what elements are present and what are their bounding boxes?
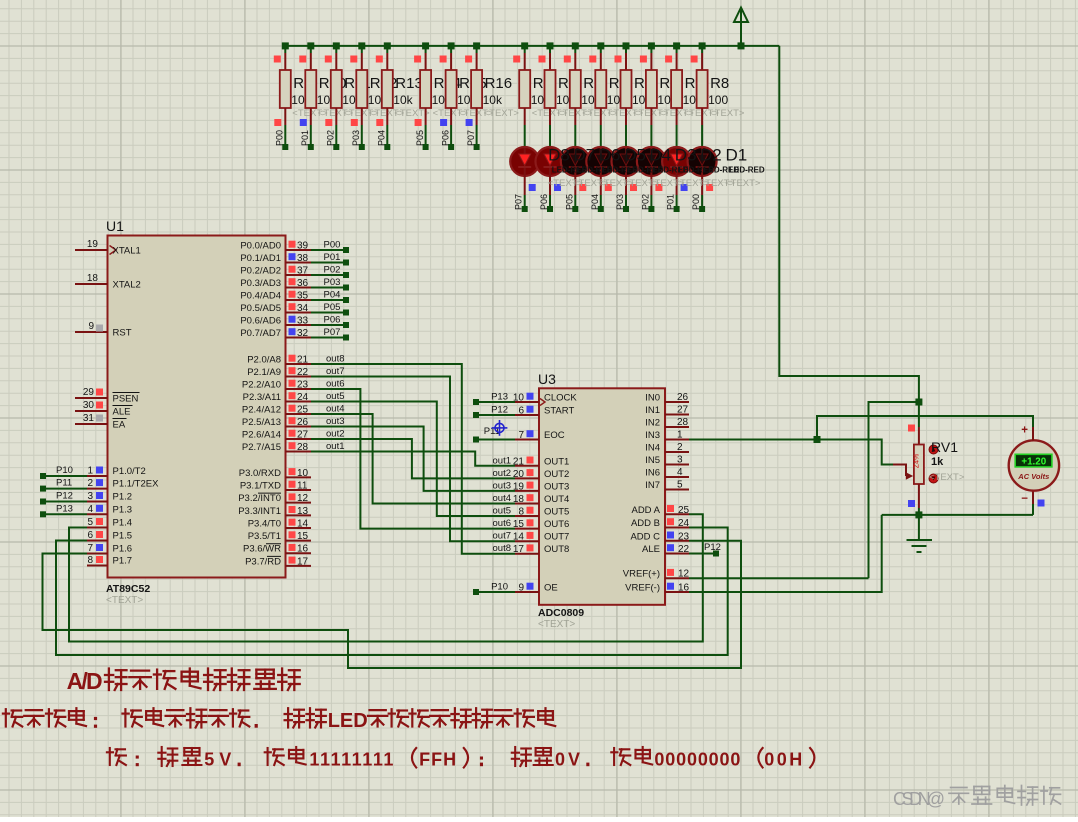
svg-text:24: 24 (297, 392, 309, 403)
svg-text:out8: out8 (493, 543, 512, 554)
resistor R2 100 (539, 46, 593, 125)
svg-text:ADD C: ADD C (630, 531, 660, 542)
wire LED D1 to terminal P00 (691, 176, 713, 212)
U1 pin 21 P2.0/A8 (247, 355, 311, 366)
wire P1.6 to ADD C (43, 541, 742, 668)
wire P1.4 to ADD A (69, 514, 703, 641)
svg-text:28: 28 (677, 417, 689, 428)
svg-text:1k: 1k (931, 456, 944, 468)
U3 pin 4 IN6 (645, 467, 689, 479)
svg-text:out3: out3 (326, 416, 345, 427)
U1 pin 9 RST (75, 321, 132, 339)
svg-text:Z4%: Z4% (914, 454, 921, 468)
LED D5 LED-RED symbol (586, 147, 615, 176)
svg-text:18: 18 (513, 494, 525, 505)
wire LED D7 to terminal P06 (539, 176, 561, 212)
U3 pin 18 OUT4 (513, 494, 569, 505)
U1 pin 14 P3.4/T0 (248, 518, 311, 529)
svg-text:A/D: A/D (67, 668, 103, 694)
wire LED D8 to terminal P07 (514, 176, 536, 212)
svg-text:U1: U1 (106, 218, 124, 234)
U1 pin 37 P0.2/AD2 (240, 266, 311, 277)
svg-text:P01: P01 (324, 252, 341, 263)
svg-text:17: 17 (297, 556, 309, 567)
svg-text:13: 13 (297, 506, 309, 517)
svg-text:IN4: IN4 (645, 443, 660, 454)
svg-text:out4: out4 (493, 493, 512, 504)
U1 P3 overlines (258, 492, 281, 494)
svg-text:7: 7 (518, 430, 524, 441)
junction bus-R8 (699, 42, 706, 49)
wire P0.0 to terminal P00 (311, 240, 349, 254)
svg-text:out4: out4 (326, 404, 345, 415)
svg-text:P0.7/AD7: P0.7/AD7 (240, 328, 281, 339)
svg-text:00000000: 00000000 (654, 750, 740, 770)
wire R2 to LED (549, 125, 551, 147)
LED D4 labels (649, 145, 689, 189)
U1 pin 23 P2.2/A10 (242, 380, 311, 391)
U3 pin 16 VREF(-) (625, 583, 689, 594)
wire terminal P12 to U3 (473, 405, 515, 419)
wire terminal P11 to U3 (473, 426, 515, 443)
wire P0.5 to terminal P05 (311, 302, 349, 316)
svg-text:<TEXT>: <TEXT> (929, 472, 965, 483)
svg-text:out3: out3 (493, 480, 512, 491)
svg-text:+1.20: +1.20 (1021, 456, 1046, 467)
svg-text:P1.7: P1.7 (113, 556, 133, 567)
resistor R10 10k (299, 46, 353, 125)
svg-text:IN5: IN5 (645, 455, 660, 466)
wire R4 to LED (600, 125, 602, 147)
U1 pin 38 P0.1/AD1 (240, 253, 311, 264)
svg-text:D5: D5 (624, 145, 646, 164)
svg-text:P10: P10 (56, 465, 73, 476)
svg-text:<TEXT>: <TEXT> (484, 108, 520, 119)
svg-text:8: 8 (518, 507, 524, 518)
wire P0.7 to terminal P07 (311, 327, 349, 341)
svg-text:17: 17 (513, 544, 525, 555)
svg-text:34: 34 (297, 303, 309, 314)
LED D3 labels (674, 145, 714, 189)
svg-text:33: 33 (297, 316, 309, 327)
svg-text:U3: U3 (538, 371, 556, 387)
U1 pin 2 P1.1/T2EX (87, 478, 159, 490)
svg-text:P07: P07 (514, 194, 524, 210)
svg-text:14: 14 (297, 518, 309, 529)
U3 pin 22 ALE (642, 544, 690, 555)
svg-text:P3.4/T0: P3.4/T0 (248, 518, 281, 529)
U3 pin 15 OUT6 (513, 519, 569, 530)
svg-text:30: 30 (83, 400, 95, 411)
wire R3 to LED (574, 125, 576, 147)
U3 pin 28 IN2 (645, 417, 689, 429)
svg-text:11: 11 (297, 481, 308, 492)
svg-text:9: 9 (88, 321, 94, 332)
svg-text:P05: P05 (415, 130, 425, 146)
svg-text:RV1: RV1 (931, 439, 958, 455)
resistor R1 100 (513, 46, 567, 125)
svg-text:35: 35 (297, 291, 309, 302)
LED D2 LED-RED symbol (662, 147, 691, 176)
junction bus-R2 (547, 42, 554, 49)
svg-text:P2.2/A10: P2.2/A10 (242, 380, 281, 391)
svg-text:out6: out6 (493, 518, 512, 529)
adc U3 ADC0809 body (538, 371, 665, 630)
svg-text:out1: out1 (493, 455, 512, 466)
LED D4 LED-RED symbol (612, 147, 641, 176)
wire ALE to terminal P12 (689, 542, 721, 557)
svg-text:P12: P12 (491, 405, 508, 416)
svg-text:10: 10 (297, 468, 309, 479)
svg-text:LED-RED: LED-RED (729, 165, 765, 174)
resistor R9 10k (274, 46, 328, 125)
svg-text:out2: out2 (493, 468, 512, 479)
svg-text:P03: P03 (615, 194, 625, 210)
junction bus-R13 (384, 42, 391, 49)
svg-text:P2.5/A13: P2.5/A13 (242, 417, 281, 428)
U3 pin 17 OUT8 (513, 544, 569, 555)
svg-text:P2.6/A14: P2.6/A14 (242, 430, 281, 441)
svg-text:P02: P02 (326, 130, 336, 146)
wire VREF+ riser (869, 402, 919, 578)
wire LED D5 to terminal P04 (590, 176, 612, 212)
svg-text:16: 16 (678, 583, 690, 594)
wire out2 U1 P2.6 to U3 OUT2 (311, 439, 515, 478)
svg-text:R8: R8 (710, 75, 729, 92)
svg-text:RST: RST (113, 328, 132, 339)
U3 pin 6 START (515, 406, 574, 417)
svg-text:11111111: 11111111 (309, 750, 393, 770)
U1 pin 15 P3.5/T1 (248, 531, 311, 542)
wire P0.4 to terminal P04 (311, 290, 349, 304)
wire P1.0 to terminal P10 (40, 465, 87, 479)
svg-text:8: 8 (87, 555, 93, 566)
power arrow symbol (734, 8, 748, 46)
svg-text:28: 28 (297, 442, 309, 453)
svg-text:EA: EA (113, 420, 126, 431)
U1 pin 29 PSEN (75, 387, 140, 405)
wire P02 to terminal (325, 119, 339, 150)
svg-text:23: 23 (678, 531, 690, 542)
wire P1.1 to terminal P11 (40, 478, 87, 492)
svg-text:5: 5 (87, 517, 93, 528)
wire RV1 bottom to ground (918, 508, 920, 540)
svg-text:ADD A: ADD A (631, 505, 660, 516)
svg-text:VREF(-): VREF(-) (625, 583, 660, 594)
svg-text:19: 19 (513, 481, 525, 492)
U3 pin 21 OUT1 (513, 456, 569, 467)
svg-text:OUT6: OUT6 (544, 519, 569, 530)
wire R1 to LED (524, 125, 526, 147)
svg-text:31: 31 (83, 413, 95, 424)
svg-text:18: 18 (87, 273, 99, 284)
U3 pin 23 ADD C (630, 531, 689, 542)
wire LED D6 to terminal P05 (564, 176, 586, 212)
U1 pin 11 P3.1/TXD (240, 481, 311, 492)
svg-text:P12: P12 (704, 542, 721, 553)
svg-text:25: 25 (297, 405, 309, 416)
svg-text:out1: out1 (326, 441, 345, 452)
svg-text:P06: P06 (539, 194, 549, 210)
junction RV1 top node (915, 399, 922, 406)
wire LED D2 to terminal P01 (666, 176, 688, 212)
svg-text:P1.1/T2EX: P1.1/T2EX (113, 479, 160, 490)
svg-text:out7: out7 (493, 531, 512, 542)
svg-text:IN1: IN1 (645, 405, 660, 416)
junction bus-R10 (307, 42, 314, 49)
wire VREF- to ground node (689, 515, 882, 592)
svg-text:P12: P12 (56, 491, 73, 502)
svg-text:P07: P07 (324, 327, 341, 338)
resistor R4 100 (589, 46, 643, 125)
svg-text:P0.2/AD2: P0.2/AD2 (240, 266, 281, 277)
svg-text:36: 36 (297, 278, 309, 289)
svg-text:OUT1: OUT1 (544, 456, 569, 467)
svg-text:FFH: FFH (419, 750, 456, 770)
resistor R7 100 (665, 46, 719, 125)
U3 pin 7 EOC (515, 430, 565, 441)
svg-text:out2: out2 (326, 429, 345, 440)
svg-text:OUT7: OUT7 (544, 532, 569, 543)
svg-text:P05: P05 (564, 194, 574, 210)
svg-text:P05: P05 (324, 302, 341, 313)
svg-text:38: 38 (297, 253, 309, 264)
svg-text:IN0: IN0 (645, 393, 660, 404)
svg-text:P0.3/AD3: P0.3/AD3 (240, 278, 281, 289)
svg-text:P00: P00 (691, 194, 701, 210)
svg-text:1: 1 (677, 430, 683, 441)
svg-text:10k: 10k (483, 93, 503, 107)
svg-text:P04: P04 (377, 130, 387, 146)
svg-text:22: 22 (678, 544, 690, 555)
junction bus-R11 (333, 42, 340, 49)
junction bus-R12 (358, 42, 365, 49)
svg-text:D1: D1 (726, 145, 748, 164)
svg-text:23: 23 (297, 380, 309, 391)
U3 pin 2 IN4 (645, 442, 689, 454)
U1 pin 35 P0.4/AD4 (240, 291, 311, 302)
junction bus-R4 (597, 42, 604, 49)
wire terminal P10 to U3 (473, 582, 515, 596)
svg-text:P3.3/INT1: P3.3/INT1 (238, 506, 281, 517)
svg-text:P0.5/AD5: P0.5/AD5 (240, 303, 281, 314)
wire P05 to terminal (415, 119, 429, 150)
svg-text:AT89C52: AT89C52 (106, 583, 150, 595)
svg-text:P2.3/A11: P2.3/A11 (243, 392, 281, 403)
wire out8 U1 P2.0 to U3 OUT8 (311, 364, 515, 554)
svg-text:IN2: IN2 (645, 418, 660, 429)
svg-text:<TEXT>: <TEXT> (538, 619, 575, 630)
svg-text:P1.2: P1.2 (113, 492, 133, 503)
U1 pin 8 P1.7 (87, 555, 132, 567)
junction bus-R9 (282, 42, 289, 49)
wire voltmeter plus branch (817, 416, 1033, 440)
U1 pin 30 ALE (75, 400, 133, 418)
svg-text:<TEXT>: <TEXT> (725, 178, 761, 189)
U1 pin 19 XTAL1 (75, 239, 141, 257)
LED D8 labels (548, 145, 588, 189)
EOC origin crosshair marker (492, 420, 508, 436)
LED D2 labels (700, 145, 740, 189)
svg-text:37: 37 (297, 266, 309, 277)
U1 pin 5 P1.4 (87, 517, 132, 529)
svg-text:P3.7/RD: P3.7/RD (245, 556, 281, 567)
svg-text:14: 14 (513, 532, 525, 543)
svg-text:3: 3 (677, 455, 683, 466)
svg-text:6: 6 (518, 406, 524, 417)
svg-text:OUT5: OUT5 (544, 507, 569, 518)
svg-text:P00: P00 (275, 130, 285, 146)
svg-text:P1.5: P1.5 (113, 531, 133, 542)
svg-text:26: 26 (297, 417, 309, 428)
junction bus-R14 (422, 42, 429, 49)
svg-text:P10: P10 (491, 582, 508, 593)
svg-text:ADD B: ADD B (631, 518, 660, 529)
wire P00 to terminal (274, 119, 288, 150)
svg-text:P01: P01 (300, 130, 310, 146)
U1 pin 18 XTAL2 (75, 273, 141, 291)
svg-text:19: 19 (87, 239, 99, 250)
wire R8 to LED (701, 125, 703, 147)
U1 pin 13 P3.3/INT1 (238, 506, 311, 517)
LED D6 labels (598, 145, 638, 189)
svg-text:24: 24 (678, 518, 690, 529)
svg-text:16: 16 (297, 544, 309, 555)
wire P1.5 to ADD B (56, 528, 728, 656)
junction bus-R6 (648, 42, 655, 49)
function requirement text line (3, 709, 22, 726)
U1 pin 22 P2.1/A9 (247, 367, 311, 378)
U3 pin 26 IN0 (645, 392, 689, 404)
svg-text:ALE: ALE (113, 407, 131, 418)
svg-text:P0.0/AD0: P0.0/AD0 (240, 241, 281, 252)
junction bus-R3 (572, 42, 579, 49)
svg-text:100: 100 (708, 93, 728, 107)
svg-text:OUT4: OUT4 (544, 494, 569, 505)
svg-text:15: 15 (297, 531, 309, 542)
svg-text:21: 21 (297, 355, 309, 366)
voltmeter AC Volts (1009, 425, 1059, 515)
svg-text:00H: 00H (764, 750, 802, 770)
svg-text:D4: D4 (649, 145, 671, 164)
svg-text:D7: D7 (573, 145, 595, 164)
U1 pin 34 P0.5/AD5 (240, 303, 311, 314)
resistor R12 10k (350, 46, 404, 125)
wire IN3 node (689, 440, 893, 465)
wire out3 U1 P2.5 to U3 OUT3 (311, 427, 515, 491)
svg-text:P02: P02 (324, 265, 341, 276)
mcu U1 AT89C52 body (106, 218, 286, 606)
wire out4 U1 P2.4 to U3 OUT4 (311, 414, 515, 504)
U3 pin 10 CLOCK (513, 393, 578, 404)
U3 pin 3 IN5 (645, 455, 689, 467)
svg-text:D8: D8 (548, 145, 570, 164)
U1 pin 36 P0.3/AD3 (240, 278, 311, 289)
U1 pin 28 P2.7/A15 (242, 442, 311, 453)
svg-text:P03: P03 (324, 277, 341, 288)
LED D6 LED-RED symbol (561, 147, 590, 176)
svg-text:10k: 10k (393, 93, 413, 107)
U1 pin 6 P1.5 (87, 530, 132, 542)
wire P03 to terminal (351, 119, 365, 150)
svg-text:IN3: IN3 (645, 430, 660, 441)
svg-text:AC Volts: AC Volts (1017, 472, 1049, 481)
LED D1 LED-RED symbol (688, 147, 717, 176)
svg-text:START: START (544, 406, 574, 417)
svg-text:+: + (1021, 425, 1028, 437)
U1 pin 12 P3.2/INT0 (238, 493, 311, 504)
svg-text:2: 2 (677, 442, 683, 453)
U1 pin 17 P3.7/RD (245, 556, 311, 567)
resistor R8 100 (691, 46, 745, 125)
U3 pin 27 IN1 (645, 405, 689, 417)
svg-text:<TEXT>: <TEXT> (106, 595, 143, 606)
svg-text:P1.3: P1.3 (113, 504, 133, 515)
svg-text:P06: P06 (324, 315, 341, 326)
U1 pin 27 P2.6/A14 (242, 430, 311, 441)
U1 pin 1 P1.0/T2 (87, 466, 146, 478)
wire P0.1 to terminal P01 (311, 252, 349, 266)
svg-text:2: 2 (87, 478, 93, 489)
svg-text:P00: P00 (324, 240, 341, 251)
svg-text:R13: R13 (395, 75, 423, 92)
svg-text:P1.4: P1.4 (113, 518, 133, 529)
U1 pin 16 P3.6/WR (243, 544, 311, 555)
svg-text:VREF(+): VREF(+) (623, 569, 660, 580)
svg-text:D2: D2 (700, 145, 722, 164)
U3 pin 20 OUT2 (513, 469, 569, 480)
svg-text:CSDN @: CSDN @ (893, 789, 945, 809)
U1 pin 33 P0.6/AD6 (240, 316, 311, 327)
svg-text:5: 5 (677, 480, 683, 491)
wire P06 to terminal (440, 119, 454, 150)
svg-text:XTAL2: XTAL2 (113, 280, 141, 291)
wire R6 to LED (650, 125, 652, 147)
svg-text:9: 9 (518, 583, 524, 594)
svg-text:22: 22 (297, 367, 309, 378)
resistor R3 100 (564, 46, 618, 125)
svg-text:R16: R16 (485, 75, 513, 92)
svg-text:27: 27 (297, 430, 309, 441)
wire P01 to terminal (300, 119, 314, 150)
svg-text:3: 3 (87, 491, 93, 502)
svg-text:39: 39 (297, 241, 309, 252)
LED D7 LED-RED symbol (536, 147, 565, 176)
wire ground rail (882, 514, 1033, 516)
svg-text:25: 25 (678, 505, 690, 516)
svg-text:4: 4 (677, 467, 683, 478)
svg-text:P3.2/INT0: P3.2/INT0 (238, 493, 281, 504)
U3 pin 5 IN7 (645, 480, 689, 492)
svg-text:D6: D6 (599, 145, 621, 164)
LED D5 labels (624, 145, 664, 189)
svg-text:P06: P06 (440, 130, 450, 146)
wire out7 U1 P2.1 to U3 OUT7 (311, 377, 515, 542)
wire out1 U1 P2.7 to U3 OUT1 (311, 452, 515, 466)
LED D8 LED-RED symbol (510, 147, 539, 176)
U3 pin 12 VREF(+) (623, 569, 690, 580)
ground symbol (907, 540, 933, 552)
svg-text:P13: P13 (491, 392, 508, 403)
svg-text:32: 32 (297, 328, 309, 339)
LED D3 LED-RED symbol (637, 147, 666, 176)
svg-text:21: 21 (513, 456, 525, 467)
U1 pin 7 P1.6 (87, 543, 132, 555)
resistor R16 10k (465, 46, 519, 125)
U3 CLOCK chevron (540, 399, 545, 406)
U1 pin 4 P1.3 (87, 504, 132, 516)
junction bus-R16 (473, 42, 480, 49)
